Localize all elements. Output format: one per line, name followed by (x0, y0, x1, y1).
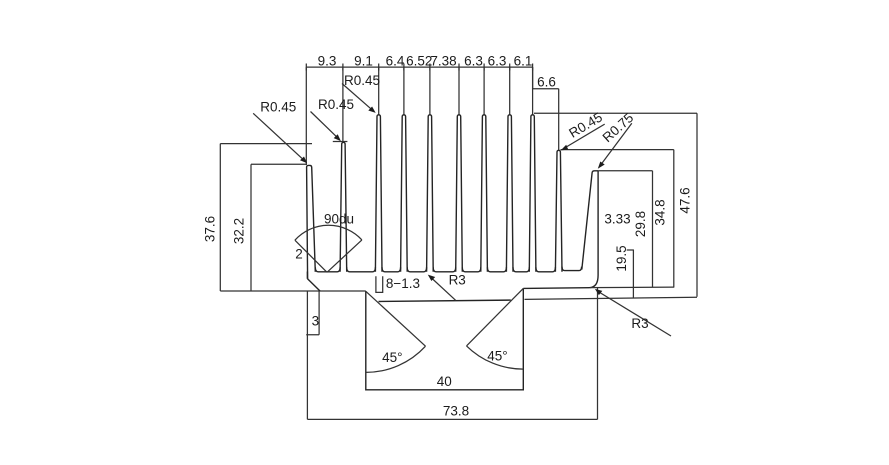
dimension 29.8 line (598, 171, 652, 287)
extension lines to fin tips (306, 67, 532, 165)
dimension 37.6 line (219, 144, 221, 291)
dimension 3 lines (306, 291, 319, 335)
extension line to last fin tip (558, 89, 560, 151)
leader R0.45 fin2 (311, 112, 339, 139)
top dimension line (306, 66, 532, 68)
dimension 47.6 line (534, 113, 697, 296)
leader R0.75 right wall (600, 123, 632, 166)
svg-text:37.6: 37.6 (203, 216, 218, 242)
svg-text:73.8: 73.8 (443, 403, 469, 418)
right 45 arc (467, 346, 524, 369)
pedestal ceiling line (379, 300, 511, 301)
svg-text:R0.75: R0.75 (600, 110, 637, 145)
svg-text:90du: 90du (324, 212, 354, 227)
svg-text:47.6: 47.6 (677, 187, 692, 213)
svg-text:40: 40 (437, 374, 452, 389)
svg-text:6.4: 6.4 (386, 53, 405, 68)
svg-text:29.8: 29.8 (633, 211, 648, 237)
fin 5 outline (427, 115, 434, 272)
svg-text:R0.45: R0.45 (566, 109, 605, 140)
base left chamfer (308, 279, 321, 291)
leader R3 fin root (430, 277, 456, 301)
svg-text:2: 2 (295, 246, 303, 261)
right datum lower (525, 297, 698, 299)
svg-text:3.33: 3.33 (604, 212, 630, 227)
svg-text:6.3: 6.3 (488, 53, 507, 68)
dimension 37.6 top extension (220, 143, 312, 145)
fin root gaps (315, 267, 555, 272)
top dimension ticks (306, 64, 532, 71)
leader R0.45 left wall (253, 113, 305, 161)
fin 9 outline (529, 115, 536, 272)
gap before right wall (562, 267, 582, 271)
svg-text:R0.45: R0.45 (260, 99, 296, 114)
svg-text:6.6: 6.6 (537, 75, 556, 90)
left datum line (base underside) (220, 290, 365, 292)
svg-text:19.5: 19.5 (614, 245, 629, 271)
svg-text:32.2: 32.2 (231, 218, 246, 244)
dimension 19.5 line (627, 250, 634, 298)
svg-text:3: 3 (312, 314, 320, 329)
svg-text:9.3: 9.3 (318, 53, 337, 68)
svg-text:7.38: 7.38 (430, 53, 456, 68)
left 45 chamfer ray (366, 291, 426, 346)
svg-text:6.1: 6.1 (514, 53, 533, 68)
svg-text:6.52: 6.52 (406, 53, 432, 68)
fin 2 outline (340, 142, 347, 271)
dimension 73.8 left extension (306, 291, 308, 419)
right 45 chamfer ray (467, 288, 524, 346)
pedestal outline (366, 288, 524, 389)
8-1.3 bracket (376, 276, 383, 292)
dimension 6.6 step line (533, 67, 559, 89)
left wall fin outline (307, 165, 316, 278)
leader R0.45 last fin (564, 124, 605, 149)
base left edge (306, 272, 308, 279)
leader R0.45 fin3 (342, 84, 373, 111)
leader R3 base corner (597, 291, 671, 336)
fin 4 outline (401, 115, 408, 272)
dimension 34.8 line (561, 150, 674, 287)
right datum upper (590, 286, 674, 289)
right wall outline (523, 171, 598, 289)
svg-text:R0.45: R0.45 (318, 97, 354, 112)
svg-text:8−1.3: 8−1.3 (386, 276, 420, 291)
fin 8 outline (506, 115, 513, 272)
svg-text:9.1: 9.1 (354, 53, 373, 68)
svg-text:R3: R3 (449, 272, 466, 287)
fin 6 outline (456, 115, 463, 272)
svg-text:34.8: 34.8 (653, 199, 668, 225)
dimension 32.2 line (250, 164, 252, 291)
svg-text:6.3: 6.3 (464, 53, 483, 68)
svg-text:R0.45: R0.45 (344, 73, 380, 88)
fin 10 outline (555, 150, 562, 272)
dimension 73.8 line (307, 418, 597, 420)
90du fan arc (295, 225, 362, 240)
svg-text:45°: 45° (382, 350, 402, 365)
fin 7 outline (481, 115, 488, 272)
fin2 tip dash (333, 141, 348, 143)
dimension 73.8 right extension (597, 288, 599, 419)
svg-text:R3: R3 (631, 316, 648, 331)
svg-text:45°: 45° (487, 349, 507, 364)
fin 3 outline (375, 115, 382, 272)
dimension 32.2 top extension (251, 163, 307, 165)
left 45 arc (366, 346, 426, 372)
90du fan rays (295, 240, 362, 272)
